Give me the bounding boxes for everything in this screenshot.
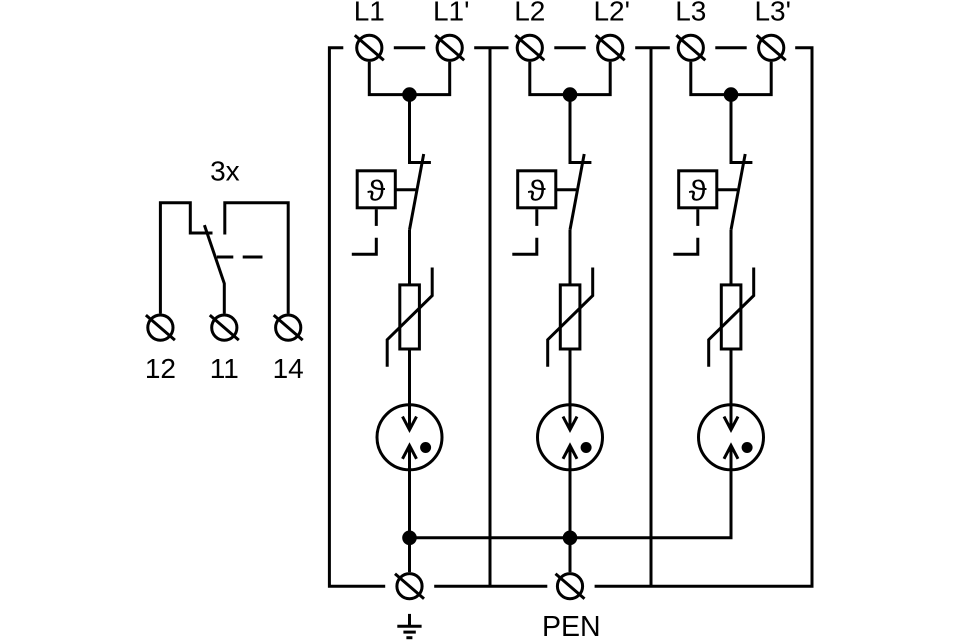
wire - disconnector to varistor phase 2 (569, 230, 572, 285)
svg-text:ϑ: ϑ (528, 175, 546, 207)
svg-text:ϑ: ϑ (367, 175, 385, 207)
thermal disconnector blade phase 1 (410, 154, 424, 230)
mechanical linkage (dashed) phase 1 (352, 209, 377, 254)
wire - sensor link to blade phase 1 (395, 188, 416, 191)
terminal L1' (435, 35, 464, 60)
wire - varistor to spark gap phase 2 (569, 349, 572, 430)
terminal L2 (515, 35, 544, 60)
mechanical linkage (dashed) of changeover contact (217, 256, 263, 259)
svg-text:14: 14 (273, 353, 304, 384)
thermal sensor ϑ phase 2 (518, 171, 556, 208)
wire - phase 2 junction down to disconnector fixed contact (570, 95, 591, 163)
ground (397, 614, 421, 638)
changeover contact 11-12-14 - terminal 14 branch with NO fixed contact (225, 203, 288, 314)
svg-text:ϑ: ϑ (689, 175, 707, 207)
svg-text:L1: L1 (354, 0, 385, 27)
gas discharge tube / spark gap phase 3 (699, 405, 764, 470)
junction node bus / PEN branch (563, 531, 578, 546)
thermal sensor ϑ phase 1 (357, 171, 395, 208)
svg-text:3x: 3x (210, 156, 240, 187)
junction node bus / earth branch (402, 531, 417, 546)
thermal disconnector blade phase 3 (731, 154, 745, 230)
enclosure outline - top edge dashes (394, 46, 747, 49)
enclosure outline - left edge with top stub and bottom-left segment (329, 48, 385, 586)
mechanical linkage (dashed) phase 3 (673, 209, 698, 254)
gas discharge tube / spark gap phase 1 (377, 405, 442, 470)
earth terminal (395, 574, 424, 599)
terminal 12 (146, 315, 175, 340)
enclosure outline - divider 1 (489, 48, 492, 586)
terminal L3' (757, 35, 786, 60)
wire - sensor link to blade phase 2 (556, 188, 577, 191)
wire - disconnector to varistor phase 3 (730, 230, 733, 285)
wire - phase 3 junction down to disconnector fixed contact (731, 95, 752, 163)
svg-text:L3: L3 (675, 0, 706, 27)
varistor phase 3 (709, 268, 754, 367)
wire - phase 3 terminal drops and tie bar (691, 62, 771, 95)
wire - spark gap phase 2 down through bus to PEN terminal (569, 446, 572, 573)
wire - sensor link to blade phase 3 (717, 188, 738, 191)
svg-text:12: 12 (145, 353, 176, 384)
wire - PEN bus and phase 3 drop (410, 446, 732, 538)
changeover contact 11-12-14 - blade and terminal 11 drop (204, 225, 224, 313)
terminal PEN (556, 574, 585, 599)
gas discharge tube / spark gap phase 2 (538, 405, 603, 470)
wire - varistor to spark gap phase 3 (730, 349, 733, 430)
svg-text:L3': L3' (754, 0, 791, 27)
terminal L3 (676, 35, 705, 60)
terminal L1 (355, 35, 384, 60)
terminal 11 (210, 315, 239, 340)
varistor phase 2 (548, 268, 593, 367)
wire - spark gap phase 1 down through bus to earth terminal (408, 446, 411, 573)
svg-text:L2: L2 (514, 0, 545, 27)
wire - disconnector to varistor phase 1 (408, 230, 411, 285)
svg-text:L2': L2' (593, 0, 630, 27)
wire - varistor to spark gap phase 1 (408, 349, 411, 430)
wire - phase 2 terminal drops and tie bar (530, 62, 610, 95)
mechanical linkage (dashed) phase 2 (512, 209, 537, 254)
terminal L2' (596, 35, 625, 60)
enclosure outline - right edge with top stub and bottom-right segment (595, 48, 812, 586)
svg-text:PEN: PEN (542, 611, 601, 640)
junction node phase 2 top (563, 87, 578, 102)
thermal sensor ϑ phase 3 (679, 171, 717, 208)
svg-text:L1': L1' (433, 0, 470, 27)
enclosure outline - bottom edge middle segment (434, 585, 547, 588)
svg-text:11: 11 (210, 353, 239, 384)
junction node phase 3 top (724, 87, 739, 102)
thermal disconnector blade phase 2 (570, 154, 584, 230)
wire - phase 1 terminal drops and tie bar (369, 62, 449, 95)
junction node phase 1 top (402, 87, 417, 102)
changeover contact 11-12-14 - terminal 12 branch with NC fixed contact (160, 203, 212, 314)
enclosure outline - divider 2 (650, 48, 653, 586)
terminal 14 (274, 315, 303, 340)
varistor phase 1 (387, 268, 432, 367)
wire - phase 1 junction down to disconnector fixed contact (410, 95, 431, 163)
